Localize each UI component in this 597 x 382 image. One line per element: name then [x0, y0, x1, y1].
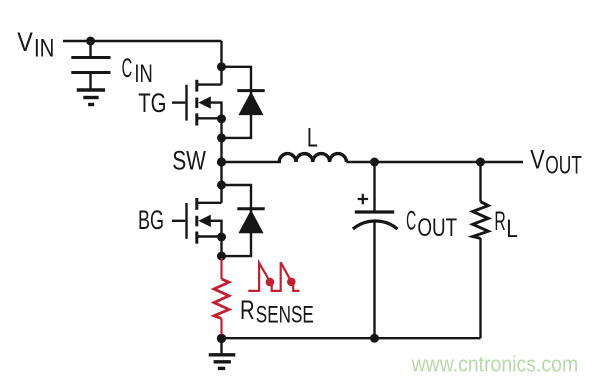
svg-text:R: R: [494, 206, 505, 236]
svg-text:SENSE: SENSE: [256, 302, 314, 329]
svg-text:IN: IN: [134, 60, 152, 88]
svg-text:OUT: OUT: [545, 152, 582, 180]
svg-text:SW: SW: [172, 146, 206, 176]
svg-text:C: C: [406, 206, 416, 236]
svg-text:L: L: [506, 215, 518, 243]
svg-text:IN: IN: [34, 35, 54, 63]
svg-text:L: L: [307, 123, 318, 153]
svg-text:V: V: [530, 145, 544, 175]
svg-text:TG: TG: [138, 88, 166, 118]
svg-text:C: C: [122, 53, 133, 83]
svg-text:OUT: OUT: [417, 214, 457, 242]
svg-text:V: V: [17, 27, 33, 57]
svg-text:BG: BG: [138, 205, 164, 235]
svg-text:www.cntronics.com: www.cntronics.com: [411, 351, 578, 376]
svg-text:R: R: [240, 295, 255, 325]
